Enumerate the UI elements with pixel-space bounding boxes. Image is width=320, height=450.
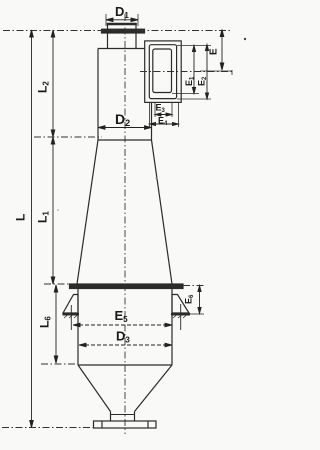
- svg-text:L: L: [14, 214, 28, 221]
- svg-text:E: E: [209, 48, 220, 55]
